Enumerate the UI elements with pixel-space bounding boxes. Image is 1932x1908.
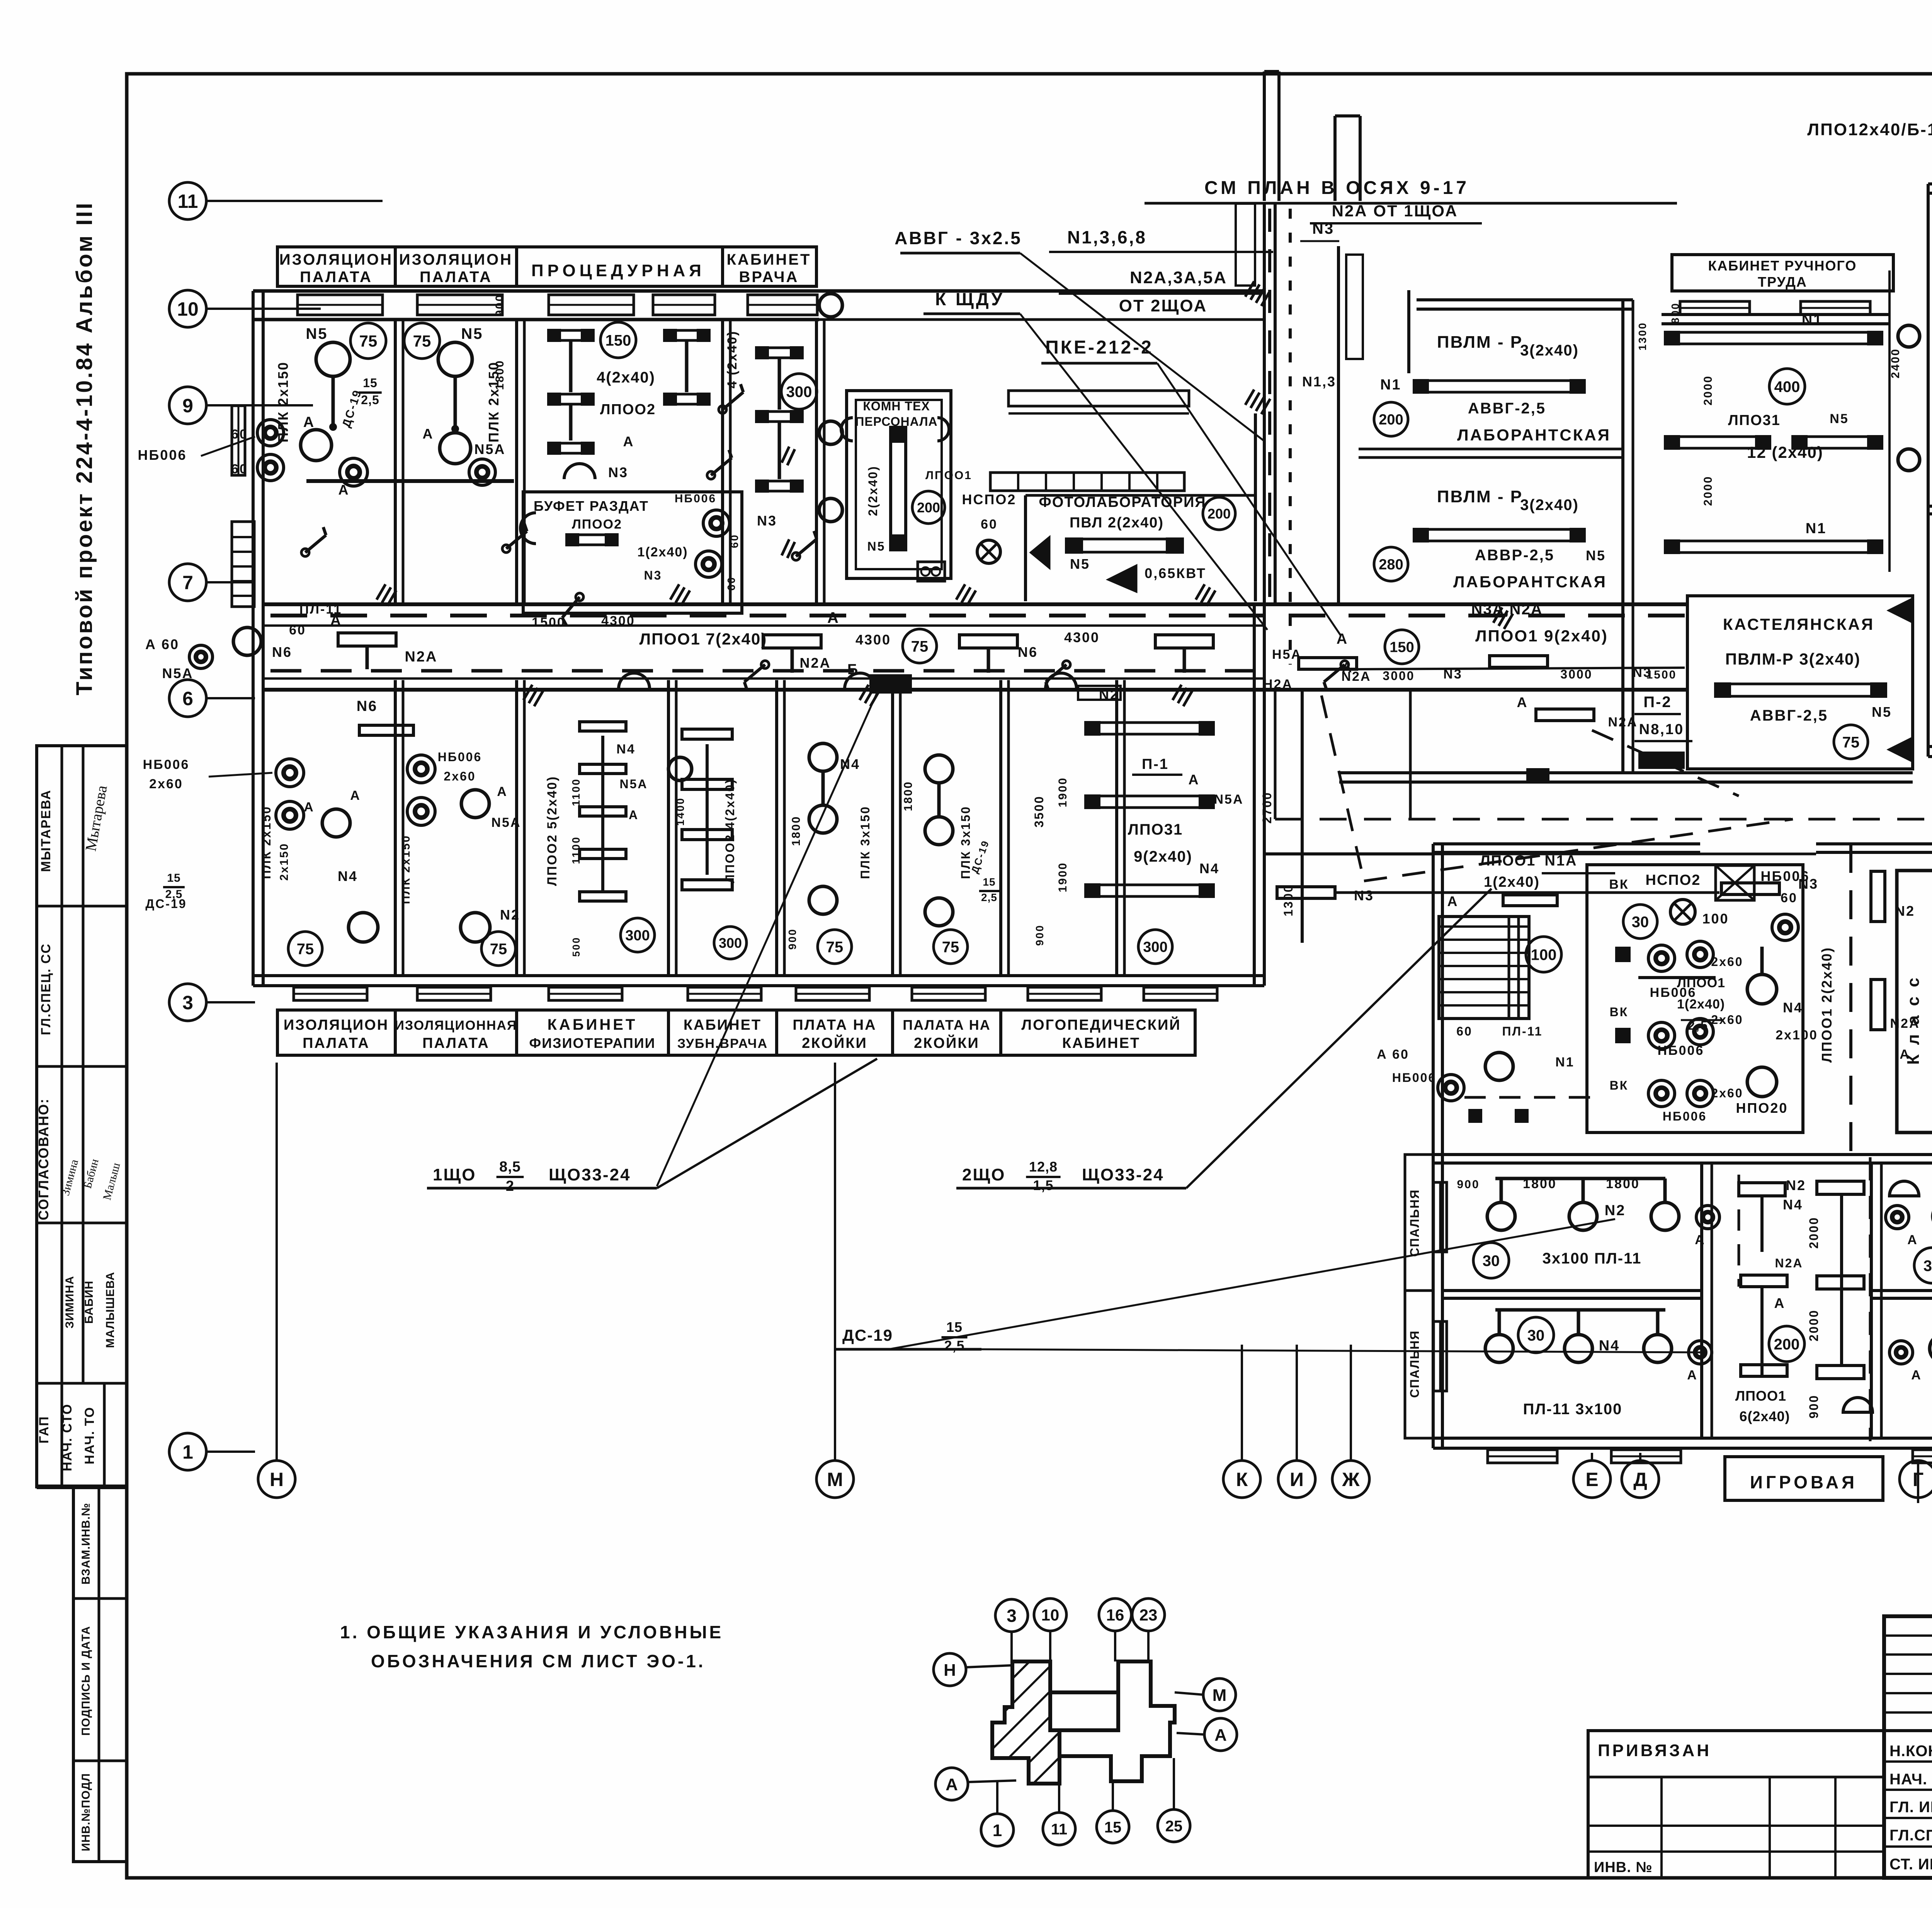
svg-text:150: 150 [605,332,631,349]
svg-text:11: 11 [1051,1821,1067,1838]
key plan other wing [1060,1661,1175,1781]
dental cabinet symbols [682,729,732,739]
svg-text:ЛАБОРАНТСКАЯ: ЛАБОРАНТСКАЯ [1457,426,1611,444]
isolation ward 1 luminaires [350,323,386,359]
svg-text:N6: N6 [357,698,378,714]
svg-text:N5: N5 [306,325,328,342]
svg-text:2х100: 2х100 [1776,1028,1818,1042]
svg-text:2х60: 2х60 [1711,1013,1743,1027]
svg-text:А: А [1189,772,1200,787]
riser shaft lines [1263,203,1266,603]
svg-text:30: 30 [1923,1257,1932,1274]
svg-text:N2А: N2А [1341,669,1371,684]
svg-text:N3: N3 [644,568,662,582]
svg-text:Н: Н [944,1661,956,1680]
svg-text:ЛПОО1: ЛПОО1 [1735,1388,1786,1404]
class top wall [1662,313,1889,316]
svg-text:АВВГ-2,5: АВВГ-2,5 [1750,707,1828,724]
svg-text:75: 75 [413,332,431,350]
svg-text:N1,3: N1,3 [1302,374,1336,389]
svg-text:200: 200 [1774,1336,1800,1353]
svg-text:НАЧ. ТО: НАЧ. ТО [82,1406,97,1464]
svg-text:400: 400 [1774,378,1800,395]
svg-text:N4: N4 [1199,860,1219,876]
left entry stair [232,522,254,607]
svg-text:ЛПОО1: ЛПОО1 [1480,853,1536,869]
left wing room labels top [277,247,816,286]
left wing corridor walls [263,602,1687,606]
svg-text:2х60: 2х60 [149,777,183,791]
svg-text:А 60: А 60 [145,636,179,652]
svg-text:АВВГ - 3х2.5: АВВГ - 3х2.5 [895,228,1022,248]
svg-text:КАБИНЕТ: КАБИНЕТ [1062,1035,1140,1051]
ward-2beds-2 symbols [925,755,953,783]
svg-text:А: А [338,482,350,498]
svg-text:КАСТЕЛЯНСКАЯ: КАСТЕЛЯНСКАЯ [1723,615,1874,633]
svg-text:К: К [1236,1469,1248,1490]
svg-text:100: 100 [1531,946,1557,963]
svg-text:А: А [330,612,342,629]
svg-text:12,8: 12,8 [1029,1159,1058,1175]
svg-text:ПЛК 3х150: ПЛК 3х150 [858,806,872,879]
svg-text:А: А [946,1775,958,1794]
svg-text:N5А: N5А [1214,792,1243,807]
diag feeder to bottom [1321,696,1364,881]
svg-text:N1,3,6,8: N1,3,6,8 [1067,227,1147,247]
lower ward2 symbols [407,755,435,783]
binding table [1588,1731,1884,1878]
svg-text:1900: 1900 [1056,862,1069,893]
svg-text:А: А [1911,1368,1922,1383]
svg-text:НБ006: НБ006 [143,757,190,772]
svg-text:ЛПОО1 2(2х40): ЛПОО1 2(2х40) [1819,947,1835,1063]
svg-text:900: 900 [1457,1178,1480,1191]
svg-text:НСПО2: НСПО2 [1646,872,1701,888]
svg-text:11: 11 [178,190,198,212]
svg-text:2,5: 2,5 [981,891,997,903]
center corridor bars bottom [1817,1181,1864,1194]
staff room [847,391,951,578]
svg-text:15: 15 [946,1319,963,1335]
svg-text:60: 60 [728,534,740,548]
svg-text:ВЗАМ.ИНВ.№: ВЗАМ.ИНВ.№ [80,1503,92,1585]
class room bottom [1897,871,1932,1133]
svg-text:200: 200 [1207,506,1231,522]
svg-text:А: А [303,414,315,430]
svg-text:А: А [350,788,361,803]
svg-text:N1: N1 [1555,1055,1574,1070]
svg-text:3: 3 [1007,1606,1017,1626]
approval sidebar table [37,746,127,1487]
svg-text:ЛПОО2 4(2х40): ЛПОО2 4(2х40) [723,778,737,883]
svg-text:ИЗОЛЯЦИОН: ИЗОЛЯЦИОН [279,251,393,268]
svg-text:75: 75 [911,638,929,655]
svg-text:Н2А: Н2А [1263,677,1293,692]
svg-text:280: 280 [1379,557,1403,573]
svg-text:4(2х40): 4(2х40) [597,369,655,386]
sleeping row1 left room [1495,1177,1665,1180]
svg-text:ПАЛАТА: ПАЛАТА [420,269,492,286]
svg-text:N2А: N2А [799,655,831,671]
svg-text:СТ. ИНЖ.: СТ. ИНЖ. [1889,1856,1932,1873]
svg-text:25: 25 [1165,1818,1183,1835]
svg-text:НАЧ. СТО: НАЧ. СТО [60,1403,75,1471]
svg-text:3(2х40): 3(2х40) [1520,342,1579,359]
svg-text:2000: 2000 [1702,476,1714,506]
svg-text:ПЛК 2х150: ПЛК 2х150 [400,835,412,904]
svg-text:800: 800 [1669,302,1681,324]
svg-text:2КОЙКИ: 2КОЙКИ [802,1034,867,1051]
svg-text:N2А,3А,5А: N2А,3А,5А [1130,268,1227,287]
svg-text:А: А [497,784,508,799]
svg-text:300: 300 [625,928,650,944]
svg-text:1(2х40): 1(2х40) [637,545,688,559]
svg-text:П-2: П-2 [1643,694,1672,711]
svg-text:N5: N5 [1586,548,1606,563]
corridor hatch ticks [524,685,532,700]
svg-text:НБ006: НБ006 [138,447,187,463]
svg-text:75: 75 [1842,734,1860,751]
svg-text:1500: 1500 [532,615,566,630]
svg-text:7: 7 [182,572,193,593]
svg-text:15: 15 [983,876,995,888]
svg-text:М: М [827,1469,843,1490]
svg-text:ОБОЗНАЧЕНИЯ СМ ЛИСТ ЭО-1.: ОБОЗНАЧЕНИЯ СМ ЛИСТ ЭО-1. [371,1651,706,1671]
svg-text:2(2х40): 2(2х40) [866,465,880,516]
svg-text:1500: 1500 [1646,668,1677,681]
svg-text:СМ ПЛАН В ОСЯХ 9-17: СМ ПЛАН В ОСЯХ 9-17 [1204,178,1469,198]
svg-text:23: 23 [1139,1606,1158,1624]
sleeping row2 left room [1495,1308,1665,1312]
svg-text:N3: N3 [608,464,628,480]
svg-text:15: 15 [363,376,378,390]
sleeping room labels left [1405,1155,1433,1291]
svg-text:МАЛЫШЕВА: МАЛЫШЕВА [104,1272,117,1348]
svg-text:N2А: N2А [405,649,437,665]
svg-text:100: 100 [1702,911,1729,927]
svg-text:ВК: ВК [1609,877,1629,892]
left wing partitions bottom row [394,680,397,976]
svg-text:Д: Д [1633,1469,1647,1490]
svg-text:ЛПОО2: ЛПОО2 [572,517,622,532]
svg-text:3000: 3000 [1383,669,1415,683]
svg-text:ЛПО31: ЛПО31 [1128,821,1183,838]
svg-text:ПВЛМ - Р: ПВЛМ - Р [1437,487,1523,506]
svg-text:ЛПОО1 7(2х40): ЛПОО1 7(2х40) [639,630,767,648]
svg-text:КОМН ТЕХ: КОМН ТЕХ [863,399,930,413]
svg-text:75: 75 [359,332,378,350]
bottom windows [1488,1450,1557,1463]
svg-text:НБ006: НБ006 [1650,985,1697,1000]
svg-text:N2А: N2А [1608,715,1638,730]
svg-text:N5: N5 [1070,556,1090,572]
svg-text:2х60: 2х60 [1711,955,1743,969]
svg-text:3х100 ПЛ-11: 3х100 ПЛ-11 [1543,1250,1642,1267]
svg-text:ПЛ-11: ПЛ-11 [1502,1024,1543,1038]
svg-text:Типовой проект 224-4-10.84: Типовой проект 224-4-10.84 Альбом III [72,201,97,695]
svg-text:60: 60 [725,576,737,590]
photo lab window band [990,473,1184,491]
svg-text:ГАП: ГАП [37,1416,51,1444]
svg-text:1300: 1300 [1636,322,1648,350]
lower left ward symbols [276,759,304,787]
left wing partitions top row [394,320,397,604]
svg-text:КАБИНЕТ: КАБИНЕТ [727,251,811,268]
svg-text:2х60: 2х60 [444,769,476,783]
svg-text:1ЩО: 1ЩО [433,1165,476,1184]
svg-text:НПО20: НПО20 [1736,1100,1788,1116]
lab wing left wall [1337,246,1340,603]
half-dome lamps bottom [1843,1398,1872,1412]
svg-text:N4: N4 [1783,1197,1803,1212]
svg-text:П-1: П-1 [1142,756,1169,772]
svg-text:ПАЛАТА: ПАЛАТА [303,1035,370,1051]
manual labour cabinet label [1672,255,1893,291]
svg-text:ГЛ. ИНЖ.: ГЛ. ИНЖ. [1889,1799,1932,1816]
svg-text:АВВР-2,5: АВВР-2,5 [1475,547,1554,564]
svg-text:0,65КВТ: 0,65КВТ [1145,565,1206,581]
svg-text:СПАЛЬНЯ: СПАЛЬНЯ [1408,1330,1422,1398]
svg-text:N5А: N5А [619,777,648,791]
svg-text:НБ006: НБ006 [1392,1071,1437,1085]
svg-text:ЛПО31: ЛПО31 [1728,412,1781,429]
svg-text:30: 30 [1527,1327,1545,1344]
svg-text:30: 30 [1483,1252,1500,1269]
right wing middle rooms [1928,505,1932,508]
axis row left [169,182,206,219]
svg-text:N6: N6 [1018,644,1038,660]
svg-text:ПАЛАТА: ПАЛАТА [422,1035,490,1051]
svg-text:КАБИНЕТ: КАБИНЕТ [548,1016,638,1033]
svg-text:И: И [1290,1469,1304,1490]
svg-text:ВРАЧА: ВРАЧА [739,269,799,286]
svg-text:150: 150 [1389,639,1414,656]
svg-text:900: 900 [1034,924,1046,946]
svg-text:1900: 1900 [1056,777,1069,808]
svg-text:3(2х40): 3(2х40) [1520,497,1579,514]
PKE device box [918,562,945,581]
connector left wing to bottom [1264,852,1433,855]
svg-text:СОГЛАСОВАНО:: СОГЛАСОВАНО: [36,1098,51,1220]
svg-text:2х150: 2х150 [278,843,291,881]
svg-text:БУФЕТ РАЗДАТ: БУФЕТ РАЗДАТ [534,498,649,514]
svg-text:4300: 4300 [1064,629,1100,645]
svg-text:2000: 2000 [1807,1309,1821,1341]
svg-text:2: 2 [506,1178,514,1194]
svg-text:1800: 1800 [902,781,915,811]
svg-text:БАБИН: БАБИН [83,1281,95,1324]
center wing cut wall [1145,202,1677,205]
svg-text:ИЗОЛЯЦИОН: ИЗОЛЯЦИОН [399,251,513,268]
bottom wing stair [1439,917,1529,1019]
buffet room [523,492,742,613]
svg-text:ИНВ. №: ИНВ. № [1594,1859,1653,1876]
svg-text:2КОЙКИ: 2КОЙКИ [914,1034,980,1051]
svg-text:Е: Е [1585,1469,1598,1490]
svg-text:N8,10: N8,10 [1639,721,1684,738]
corridor luminaires and wiring [270,614,1685,617]
svg-text:500: 500 [570,937,582,957]
svg-text:N2: N2 [1605,1202,1626,1219]
svg-text:А: А [423,426,434,442]
svg-text:ПВЛ 2(2х40): ПВЛ 2(2х40) [1070,515,1164,531]
svg-text:А: А [1907,1233,1918,1247]
svg-text:3: 3 [182,992,193,1014]
svg-text:М: М [1213,1686,1227,1705]
svg-text:ЛПОО1 9(2х40): ЛПОО1 9(2х40) [1475,627,1608,645]
svg-text:N5: N5 [1872,704,1892,720]
svg-text:НБ006: НБ006 [1658,1043,1704,1058]
svg-text:НБ006: НБ006 [1663,1109,1707,1123]
svg-text:2ЩО: 2ЩО [962,1165,1006,1184]
svg-text:КАБИНЕТ РУЧНОГО: КАБИНЕТ РУЧНОГО [1708,258,1857,274]
svg-text:N1: N1 [1802,312,1823,328]
svg-text:60: 60 [1781,891,1798,905]
svg-text:ПЛАТА НА: ПЛАТА НА [793,1017,876,1033]
svg-text:ЛПОО2: ЛПОО2 [600,401,656,418]
svg-text:А: А [1517,694,1528,710]
svg-text:ПВЛМ - Р: ПВЛМ - Р [1437,333,1523,352]
left wing top window band [298,295,383,315]
svg-text:ЛОГОПЕДИЧЕСКИЙ: ЛОГОПЕДИЧЕСКИЙ [1021,1016,1181,1033]
svg-text:N3А,N2А: N3А,N2А [1471,601,1543,618]
svg-text:А: А [1447,893,1459,909]
svg-text:К ЩДУ: К ЩДУ [935,289,1005,309]
svg-text:N1А: N1А [1544,853,1577,869]
svg-text:ДС-19: ДС-19 [842,1326,893,1344]
svg-text:1300: 1300 [1281,884,1295,916]
svg-text:ПЛК 2х150: ПЛК 2х150 [259,806,273,879]
svg-text:ВК: ВК [1610,1078,1629,1092]
svg-text:ЛПОО2 5(2х40): ЛПОО2 5(2х40) [545,775,560,886]
svg-text:9: 9 [182,395,193,417]
svg-text:ПРОЦЕДУРНАЯ: ПРОЦЕДУРНАЯ [531,261,705,280]
svg-text:1800: 1800 [790,816,803,846]
svg-text:ИНВ.№ПОДЛ: ИНВ.№ПОДЛ [80,1773,92,1852]
svg-text:2х60: 2х60 [1711,1086,1743,1100]
svg-text:1800: 1800 [493,360,506,390]
title block outer [1884,1616,1932,1878]
svg-text:ИЗОЛЯЦИОН: ИЗОЛЯЦИОН [284,1017,389,1033]
svg-text:300: 300 [719,935,742,951]
svg-text:ЩО33-24: ЩО33-24 [549,1165,631,1184]
svg-text:N5А: N5А [491,815,521,830]
svg-text:ТРУДА: ТРУДА [1758,274,1807,290]
svg-text:N3: N3 [1312,220,1334,237]
svg-text:ФИЗИОТЕРАПИИ: ФИЗИОТЕРАПИИ [529,1035,655,1051]
svg-text:N4: N4 [616,742,635,757]
svg-text:2400: 2400 [1889,348,1902,379]
left wing room labels bottom [277,1010,1195,1055]
bottom wing outer walls [1432,844,1435,1448]
svg-text:15: 15 [1104,1819,1122,1836]
svg-text:N4: N4 [338,868,358,884]
svg-text:N2: N2 [1786,1177,1806,1193]
svg-text:60: 60 [1456,1024,1473,1038]
svg-text:10: 10 [1041,1606,1060,1624]
svg-text:Ж: Ж [1342,1469,1360,1490]
svg-text:75: 75 [297,940,314,957]
svg-text:А: А [1774,1295,1786,1311]
svg-text:А: А [1695,1233,1706,1247]
svg-text:Н: Н [270,1469,284,1490]
svg-text:1(2х40): 1(2х40) [1484,874,1540,890]
hall partition bar [1009,391,1189,406]
svg-text:1400: 1400 [674,797,686,826]
svg-text:N5: N5 [461,325,483,342]
kastelianskaya room [1687,596,1913,769]
svg-text:16: 16 [1106,1606,1124,1624]
svg-text:ПВЛМ-Р 3(2х40): ПВЛМ-Р 3(2х40) [1725,650,1861,668]
svg-text:НБ006: НБ006 [438,750,482,764]
right wing outer walls [1928,182,1932,185]
svg-text:N3: N3 [757,513,777,529]
class 12x40 room [1665,332,1882,344]
sleeping rooms bottom walls [1433,1153,1932,1156]
svg-text:СПАЛЬНЯ: СПАЛЬНЯ [1408,1189,1422,1257]
key plan axis marks [995,1599,1028,1632]
lab wing walls [1417,298,1633,301]
svg-text:А: А [1687,1368,1698,1383]
svg-text:60: 60 [289,623,306,638]
svg-text:ПЛ-11 3х100: ПЛ-11 3х100 [1523,1401,1622,1418]
svg-text:N5А: N5А [474,441,505,457]
igrovaya label bottom [1725,1457,1883,1500]
svg-text:9(2х40): 9(2х40) [1134,848,1192,865]
svg-text:6(2х40): 6(2х40) [1739,1408,1790,1424]
svg-text:900: 900 [786,928,798,950]
sidebar lower table [73,1487,127,1862]
svg-text:N6: N6 [272,644,292,660]
svg-text:А: А [1757,437,1767,451]
svg-text:2000: 2000 [1702,375,1714,406]
treatment room luminaires [600,322,636,358]
svg-text:2,5: 2,5 [361,393,379,407]
svg-text:8,5: 8,5 [499,1159,521,1175]
left wing outer walls [253,289,1264,293]
svg-text:900: 900 [493,294,506,316]
svg-text:2000: 2000 [1807,1216,1821,1248]
shaft above cut [1263,71,1266,201]
svg-text:N1: N1 [1380,377,1401,393]
svg-text:4300: 4300 [855,632,891,648]
svg-text:10: 10 [177,298,199,320]
left wing windows bottom [294,987,367,1000]
svg-text:N2А: N2А [1775,1256,1803,1270]
svg-text:1800: 1800 [1606,1177,1640,1191]
svg-text:ДС-19: ДС-19 [145,897,187,911]
svg-text:1800: 1800 [1523,1177,1557,1191]
svg-text:1100: 1100 [570,836,582,864]
svg-text:ЛАБОРАНТСКАЯ: ЛАБОРАНТСКАЯ [1453,573,1607,591]
svg-text:1: 1 [182,1441,193,1463]
svg-text:ИЗОЛЯЦИОННАЯ: ИЗОЛЯЦИОННАЯ [395,1018,517,1033]
svg-text:ГЛ.СПЕЦ.: ГЛ.СПЕЦ. [1889,1827,1932,1844]
corridor door arcs [619,673,650,689]
svg-text:300: 300 [1143,939,1167,956]
svg-text:АВВГ-2,5: АВВГ-2,5 [1468,400,1546,417]
svg-text:НАЧ. ОТД.: НАЧ. ОТД. [1889,1771,1932,1788]
svg-text:ПОДПИСЬ И ДАТА: ПОДПИСЬ И ДАТА [80,1626,92,1736]
svg-text:1100: 1100 [570,778,582,806]
svg-text:N5: N5 [1830,412,1849,426]
svg-text:N2: N2 [500,907,520,923]
svg-text:6: 6 [182,688,193,709]
svg-text:МЫТАРЕВА: МЫТАРЕВА [39,789,53,872]
svg-text:200: 200 [1379,412,1403,428]
svg-text:2,5: 2,5 [944,1338,964,1354]
svg-text:200: 200 [917,500,940,515]
